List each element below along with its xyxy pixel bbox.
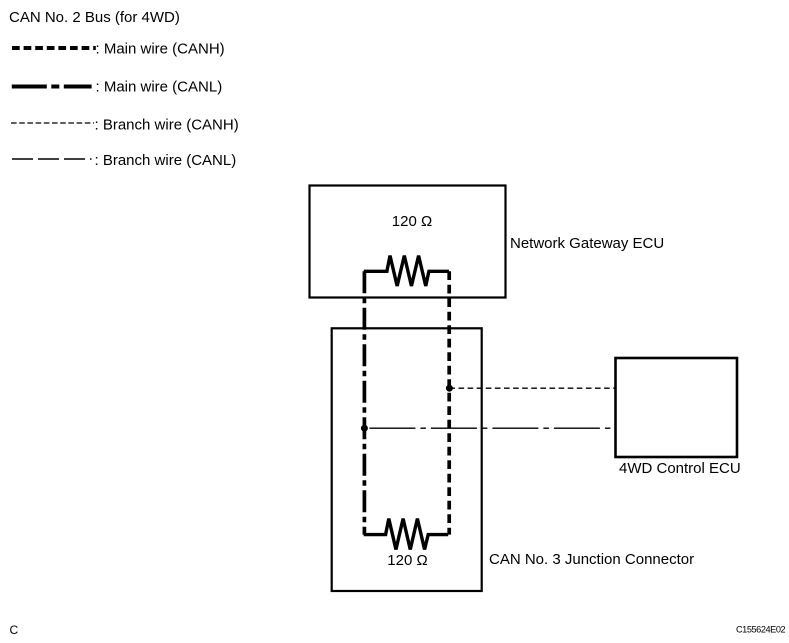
wire: CANH main vertical (thick dashed) from top resistor right terminal to bottom resistor right terminal (447, 271, 451, 534)
svg-text:4WD Control ECU: 4WD Control ECU (619, 460, 741, 477)
wire: CANL main vertical (thick dash-dot) from top resistor left terminal to bottom resistor left terminal (363, 271, 367, 534)
node A: CANH branch junction dot (446, 385, 453, 392)
svg-text:120 Ω: 120 Ω (387, 552, 427, 569)
legend sample: Branch wire (CANL) thin dash-dot line (12, 158, 92, 160)
wire: CANH branch (thin dashed) from node A to 4WD Control ECU (449, 387, 615, 389)
svg-text:CAN No. 2 Bus (for 4WD): CAN No. 2 Bus (for 4WD) (9, 9, 180, 26)
svg-text:: Main wire (CANL): : Main wire (CANL) (96, 79, 223, 96)
svg-text:: Branch wire (CANL): : Branch wire (CANL) (95, 152, 237, 169)
svg-text:: Branch wire (CANH): : Branch wire (CANH) (95, 116, 239, 133)
node B: CANL branch junction dot (361, 425, 368, 432)
svg-text:CAN No. 3 Junction Connector: CAN No. 3 Junction Connector (489, 551, 694, 568)
svg-text:C155624E02: C155624E02 (736, 625, 785, 635)
wire: CANL branch (thin dash-dot) from node B to 4WD Control ECU (364, 427, 615, 429)
ECU box: 4WD Control ECU (616, 358, 738, 457)
resistor R1 120ohm (terminating resistor in Network Gateway ECU) (364, 256, 449, 286)
svg-text:Network Gateway ECU: Network Gateway ECU (510, 235, 664, 252)
legend sample: Main wire (CANL) thick dash-dot line (12, 85, 92, 89)
legend sample: Branch wire (CANH) thin dashed line (11, 122, 94, 124)
junction connector box: CAN No. 3 Junction Connector (332, 328, 482, 591)
svg-text:C: C (10, 623, 19, 637)
svg-text:: Main wire (CANH): : Main wire (CANH) (96, 41, 225, 58)
svg-text:120 Ω: 120 Ω (392, 213, 432, 230)
resistor R2 120ohm (terminating resistor in junction connector) (364, 519, 449, 550)
legend sample: Main wire (CANH) thick dashed line (12, 46, 96, 50)
ECU box: Network Gateway ECU (310, 186, 506, 298)
